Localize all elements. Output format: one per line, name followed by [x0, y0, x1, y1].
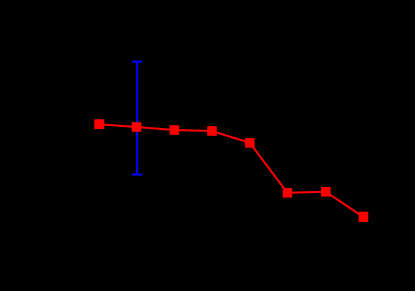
- marker 6: [283, 188, 293, 198]
- marker 2: [132, 122, 142, 132]
- data line (red series): [99, 124, 363, 217]
- marker 4: [207, 126, 217, 136]
- marker 7: [321, 187, 331, 197]
- marker 8: [359, 212, 369, 222]
- marker 5: [245, 138, 255, 148]
- error bar E1 (blue): [132, 62, 142, 175]
- marker 3: [170, 125, 180, 135]
- marker 1: [94, 119, 104, 129]
